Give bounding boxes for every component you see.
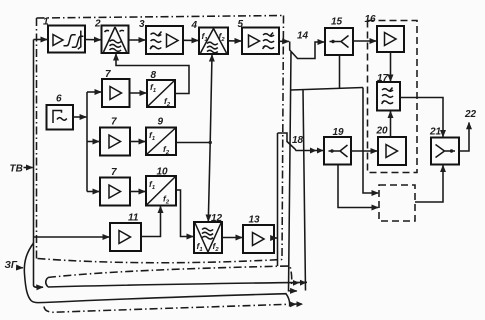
svg-text:ЗГ: ЗГ (5, 260, 18, 271)
svg-text:f2: f2 (213, 241, 220, 253)
svg-text:11: 11 (128, 213, 139, 224)
svg-text:f1: f1 (197, 241, 203, 253)
svg-text:8: 8 (151, 70, 157, 81)
svg-text:20: 20 (376, 126, 389, 137)
svg-text:f2: f2 (163, 194, 170, 206)
svg-text:f1: f1 (150, 82, 156, 94)
svg-text:18: 18 (292, 135, 304, 146)
svg-text:16: 16 (365, 14, 377, 25)
svg-text:2: 2 (94, 19, 101, 30)
svg-text:17: 17 (377, 73, 389, 84)
svg-text:21: 21 (429, 127, 442, 138)
svg-text:12: 12 (211, 213, 223, 224)
svg-text:1: 1 (43, 17, 49, 28)
svg-text:19: 19 (333, 127, 345, 138)
svg-text:4: 4 (191, 20, 198, 31)
svg-text:f1: f1 (202, 31, 208, 43)
svg-text:5: 5 (238, 19, 244, 30)
svg-text:ТВ: ТВ (10, 164, 23, 175)
svg-text:7: 7 (111, 117, 117, 128)
svg-text:f1: f1 (149, 179, 155, 191)
svg-text:7: 7 (105, 69, 111, 80)
svg-text:15: 15 (331, 17, 343, 28)
svg-text:14: 14 (297, 31, 309, 42)
svg-text:3: 3 (139, 19, 145, 30)
svg-text:10: 10 (157, 167, 169, 178)
svg-text:9: 9 (158, 117, 164, 128)
svg-text:7: 7 (111, 167, 117, 178)
svg-text:13: 13 (249, 215, 261, 226)
svg-text:22: 22 (464, 109, 477, 120)
svg-text:f1: f1 (149, 130, 155, 142)
svg-text:6: 6 (56, 94, 62, 105)
